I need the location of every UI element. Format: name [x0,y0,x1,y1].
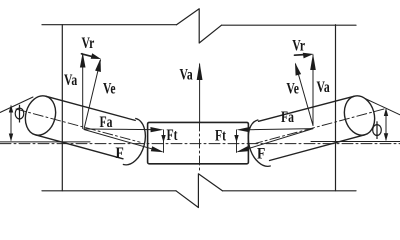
right Fa arrowhead [237,127,250,132]
left Vr arrowhead [91,53,101,59]
left cylinder top edge [46,96,136,120]
svg-text:Ft: Ft [215,128,226,145]
bottom border rail left [42,190,176,192]
svg-text:Va: Va [64,72,77,89]
right force Fa arrow line [248,129,313,130]
svg-text:Vr: Vr [292,38,305,55]
right velocity Ve arrow line [296,64,314,126]
right force junction vertical [236,130,238,153]
svg-text:F: F [116,145,124,162]
label phi left [15,108,24,119]
svg-text:Vr: Vr [82,35,95,52]
left cylinder axis dash-dot [16,109,140,142]
top border rail right [222,24,357,26]
bottom border rail right [222,190,356,192]
left Fa arrowhead [150,127,163,132]
right Va arrowhead [310,54,316,71]
right F arrowhead [236,146,249,152]
left cylinder cap arc [123,119,145,165]
right phi bottom arrowhead [384,133,388,141]
left velocity Va arrow line [82,55,84,129]
center velocity Va arrow line [199,64,201,123]
left phi callout diagonal [0,97,33,113]
svg-text:Fa: Fa [281,109,294,126]
right phi callout diagonal [365,99,400,115]
right cylinder cap arc [248,120,270,166]
right vertical frame line [335,25,337,191]
right velocity Vr arrow line [295,54,307,57]
left Ft arrowhead [161,135,165,143]
left force junction vertical [163,130,165,153]
right velocity Va arrow line [312,55,314,126]
right cylinder bottom edge [270,135,365,161]
left phi top arrowhead [9,105,13,113]
center block rectangle [148,122,249,163]
right cylinder axis dash-dot [256,109,384,143]
left phi dimension arrow [10,106,12,140]
top border rail left [42,24,177,26]
left velocity Vr arrow line [82,54,96,58]
svg-text:F: F [257,146,265,163]
left F arrowhead [151,146,164,152]
label phi right [373,125,382,136]
horizontal dash-dot centerline [0,143,400,145]
svg-text:Va: Va [317,79,330,96]
left cylinder bottom edge [35,135,123,159]
right phi dimension arrow [385,110,387,140]
left Va arrowhead [80,53,86,68]
right force F arrow line [247,129,313,149]
svg-text:Ft: Ft [167,127,178,144]
right horizontal reference line [311,141,400,143]
break symbol bottom [176,174,222,208]
vertical dash-dot centerline [199,122,201,172]
left horizontal reference line [0,141,90,143]
center Va arrowhead [197,63,203,81]
right Vr arrowhead [303,53,314,59]
left velocity Ve arrow line [84,60,101,129]
right cylinder end ellipse [340,92,379,138]
left Ve arrowhead [95,59,101,73]
right Ve arrowhead [295,63,301,76]
svg-text:Va: Va [180,67,193,84]
left phi bottom arrowhead [9,134,13,142]
svg-text:Ve: Ve [103,81,116,98]
right phi top arrowhead [384,108,388,116]
svg-text:Ve: Ve [286,81,299,98]
left cylinder end ellipse [21,92,60,138]
right cylinder top edge [259,96,355,121]
left vertical frame line [61,25,63,191]
right Ft arrowhead [234,135,238,143]
left force F arrow line [84,130,153,150]
break symbol top [177,9,222,43]
svg-text:Fa: Fa [100,114,113,131]
left force Fa arrow line [84,128,152,131]
